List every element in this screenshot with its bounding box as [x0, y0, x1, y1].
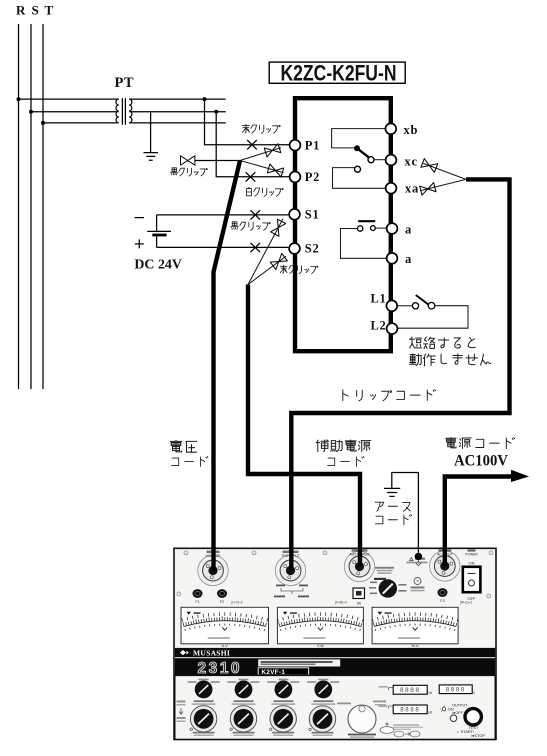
lower control panel [175, 675, 495, 739]
output lamp [450, 715, 457, 722]
terminal S2 [289, 243, 300, 254]
terminal xb [385, 123, 396, 134]
svg-text:AC100V: AC100V [454, 453, 508, 470]
digital display Hz [393, 705, 427, 714]
voltage cord (thick) [214, 161, 241, 571]
button F3 [438, 588, 448, 597]
label earth cord [375, 502, 410, 511]
svg-text:a: a [405, 223, 412, 237]
svg-text:S1: S1 [305, 208, 320, 222]
wire a-contact to a1 [375, 227, 386, 229]
left side tiny labels [177, 701, 186, 703]
label aka-clip (red clip) [242, 124, 280, 133]
meter V-W [277, 607, 363, 644]
wire contact to xc [374, 159, 385, 161]
trip cord (thick) [291, 179, 509, 570]
svg-text:F3: F3 [440, 599, 444, 603]
terminal L2 [387, 323, 398, 334]
aux power cord (thick) [248, 285, 360, 567]
jog dial SET FREQUENCY [348, 705, 376, 733]
svg-text:PT: PT [115, 75, 135, 91]
svg-text:P2: P2 [305, 170, 320, 184]
terminal a2 [387, 253, 398, 264]
lead to clip at xc [423, 163, 466, 179]
svg-text:(W-U)÷2: (W-U)÷2 [460, 601, 473, 605]
lead to red clip at S2 [248, 256, 286, 284]
junction dot secondary top [203, 97, 207, 101]
a-contact bar [358, 220, 375, 222]
svg-text:F1: F1 [195, 600, 199, 604]
wire PT secondary middle [129, 111, 225, 113]
label kuro-clip (black clip) [171, 168, 208, 176]
MUSASHI brand band [175, 648, 495, 657]
wire PT center tap to ground [150, 112, 152, 153]
svg-text:xb: xb [404, 123, 419, 137]
svg-text:Hz: Hz [428, 691, 432, 695]
contact arm [357, 148, 369, 157]
a-contact left circle [358, 226, 363, 231]
relay body frame [295, 98, 391, 351]
meter U-V [181, 607, 269, 644]
lead to red clip at P1 [240, 148, 281, 161]
a-contact right circle [371, 226, 376, 231]
connector AUX POWER [344, 551, 374, 581]
digital display s [439, 685, 472, 694]
wire L1 to switch [397, 305, 412, 307]
voltage knob bottom 1 [190, 706, 216, 732]
panel screws [177, 551, 493, 741]
svg-text:/●STOP: /●STOP [471, 733, 485, 738]
svg-text:xa: xa [405, 181, 419, 195]
svg-text:8888: 8888 [446, 687, 466, 694]
wire PT secondary top [129, 98, 225, 100]
terminal a1 [387, 223, 398, 234]
ground symbol under PT [144, 153, 159, 161]
svg-text:Hz: Hz [428, 711, 432, 715]
wire bus R [18, 24, 20, 389]
label shiro-clip (white clip) [247, 187, 284, 196]
terminal xc [386, 155, 397, 166]
svg-text:(V-W)÷2: (V-W)÷2 [335, 601, 347, 605]
clip cross mark on S2 wire [251, 243, 261, 252]
clip symbol at xc [421, 159, 438, 173]
power cord tail into connector [443, 547, 447, 566]
battery cell symbol [156, 215, 158, 231]
svg-text:W-U: W-U [412, 644, 420, 648]
wire NO contact to xa [333, 168, 386, 189]
wire to P2 [216, 112, 289, 177]
svg-text:(U-V)÷2: (U-V)÷2 [231, 601, 243, 605]
svg-text:F2: F2 [220, 600, 224, 604]
clip symbol black at S1 [271, 219, 286, 236]
svg-text:2310: 2310 [198, 660, 242, 677]
wire PT secondary bottom [129, 122, 225, 124]
clip symbol white (at P2) [267, 164, 283, 177]
earth ground symbol [384, 488, 400, 496]
contact-trip selector marks [276, 585, 285, 587]
earth cord tail [417, 547, 419, 553]
selector knob top 1 [188, 681, 197, 683]
label denatsu cord (voltage cord) [170, 440, 196, 452]
battery minus sign [135, 217, 144, 219]
tester chassis [174, 548, 496, 739]
clip cross mark on S1 wire [251, 210, 261, 219]
wire battery negative to S1 [157, 214, 289, 216]
junction dot secondary middle [214, 110, 218, 114]
power cord AC100V (thick, with arrow) [445, 477, 514, 567]
clip cross mark on P1 wire [247, 140, 257, 149]
rotary selector [375, 567, 394, 569]
lead to white clip at P2 [240, 161, 284, 173]
wire black clip to voltage cord [195, 160, 240, 162]
svg-text:5A: 5A [357, 602, 362, 606]
push dial illustration [380, 727, 394, 734]
polarity lamp [414, 578, 421, 585]
earth cord wire [392, 473, 419, 553]
switch circle right [428, 302, 435, 309]
junction dot on S [29, 110, 33, 114]
svg-text:R S T: R S T [16, 3, 55, 18]
selector knob top 2 [228, 681, 237, 683]
transformer PT core [122, 98, 125, 125]
terminal S1 [289, 209, 300, 220]
relay name box K2ZC-K2FU-N [269, 62, 405, 83]
connector labels [207, 551, 220, 553]
clip symbol at xa [420, 183, 436, 196]
svg-text:OUTPUT: OUTPUT [452, 703, 468, 707]
svg-text:S2: S2 [305, 241, 320, 255]
clip symbol red (at P1) [264, 144, 281, 157]
clip cross mark on P2 wire [246, 172, 256, 181]
terminal xa [386, 183, 397, 194]
svg-text:OFF: OFF [468, 596, 477, 601]
svg-text:P1: P1 [305, 139, 320, 153]
caution note [410, 558, 414, 561]
voltage knob bottom 3 [270, 706, 296, 732]
wire S to PT primary [31, 111, 119, 113]
wire battery positive to S2 [157, 246, 289, 248]
svg-text:POWER: POWER [465, 552, 478, 556]
svg-text:a: a [405, 252, 412, 266]
label kuro-clip at S1 [231, 222, 270, 231]
transformer PT secondary winding [129, 99, 132, 123]
svg-text:DC 24V: DC 24V [134, 257, 182, 272]
note: dousa shimasen (will not operate) [410, 354, 491, 366]
wire a-contact to a2 [341, 229, 387, 259]
wire bus S [30, 24, 32, 389]
contact moving circle [368, 157, 374, 163]
svg-text:K2ZC-K2FU-N: K2ZC-K2FU-N [281, 60, 397, 85]
wire bus T [42, 24, 44, 389]
junction dot on R [17, 97, 21, 101]
usb connector [353, 588, 365, 599]
voltage cord tail into connector [211, 547, 215, 571]
wire T to PT primary [43, 122, 119, 124]
wire xb to contact [332, 129, 386, 148]
battery plus sign [135, 239, 144, 248]
connector TRIP input [275, 555, 305, 585]
TEST start button [465, 709, 481, 725]
svg-text:V-W: V-W [317, 644, 324, 648]
label aka-clip at S2 [280, 265, 318, 273]
connector AC INPUT [430, 551, 460, 581]
lead to clip at xa [421, 179, 466, 190]
digital display Hz [393, 685, 427, 694]
wire to P1 [205, 99, 290, 145]
trip cord tail into connector [289, 547, 293, 571]
terminal P1 [290, 140, 301, 151]
aux cord tail into connector [358, 547, 362, 567]
switch arm open [416, 295, 429, 305]
voltage knob bottom 4 [309, 706, 335, 732]
svg-text:L1: L1 [371, 291, 387, 305]
terminal L1 [386, 300, 397, 311]
earth terminal on panel [415, 553, 422, 560]
button F2 [217, 589, 227, 598]
svg-text:L2: L2 [371, 318, 387, 332]
meter W-U [372, 607, 458, 644]
note: tanraku suruto (if shorted) [410, 337, 476, 349]
contact fixed point (filled) [354, 145, 360, 151]
button F1 [193, 589, 203, 598]
transformer PT primary winding [116, 99, 119, 123]
lead to black clip at S1 [248, 219, 283, 285]
label dengen cord AC100V (power cord) [446, 437, 515, 448]
voltage knob bottom 2 [230, 706, 256, 732]
selector knob top 3 [267, 681, 276, 683]
svg-text:ON: ON [469, 561, 475, 566]
junction dot on T [41, 121, 45, 125]
svg-text:MUSASHI: MUSASHI [193, 648, 230, 657]
label hojo dengen cord (aux power cord) [316, 440, 371, 452]
connector VOLTAGE output [198, 555, 228, 585]
clip symbol red at S2 [270, 253, 287, 269]
2310 model band [175, 658, 495, 675]
label trip cord [343, 390, 436, 401]
clip symbol black (voltage cord) [181, 156, 195, 165]
wire R to PT primary [19, 98, 119, 100]
contact NO circle [355, 166, 361, 172]
svg-text:8888: 8888 [400, 707, 420, 714]
terminal P2 [290, 172, 301, 183]
selector knob top 4 [307, 681, 316, 683]
svg-text:8888: 8888 [400, 687, 421, 694]
switch circle left [412, 303, 418, 309]
svg-text:xc: xc [405, 155, 418, 169]
wire switch loop to L2 [397, 306, 468, 329]
